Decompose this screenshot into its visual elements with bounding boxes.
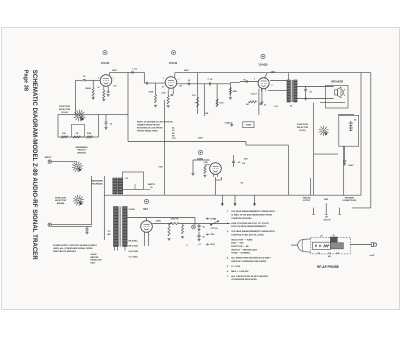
svg-text:ALL CAPACITORS IN MFD UNLESS: ALL CAPACITORS IN MFD UNLESS bbox=[231, 275, 268, 278]
svg-text:OTHERWISE INDICATED.: OTHERWISE INDICATED. bbox=[231, 278, 258, 281]
svg-text:PRV: PRV bbox=[210, 234, 215, 236]
svg-text:10K: 10K bbox=[205, 113, 209, 115]
svg-text:170: 170 bbox=[328, 253, 331, 255]
svg-text:SWITCH: SWITCH bbox=[77, 150, 86, 152]
svg-text:CHASSIS GROUND.: CHASSIS GROUND. bbox=[231, 217, 252, 220]
svg-text:1M: 1M bbox=[241, 183, 244, 185]
svg-text:1/2W: 1/2W bbox=[244, 158, 248, 160]
svg-text:A7: A7 bbox=[320, 234, 322, 237]
svg-text:POWER SUPPLY CIRCUITS SHOWN IN: POWER SUPPLY CIRCUITS SHOWN IN HEAVY bbox=[53, 244, 98, 247]
svg-text:INPUT: INPUT bbox=[45, 157, 52, 159]
svg-text:4.: 4. bbox=[227, 257, 229, 260]
svg-text:50K: 50K bbox=[62, 133, 66, 135]
svg-text:1629: 1629 bbox=[197, 157, 203, 161]
svg-text:240V: 240V bbox=[198, 137, 203, 140]
svg-text:C18: C18 bbox=[242, 163, 245, 165]
svg-text:1.: 1. bbox=[227, 211, 229, 213]
svg-text:1500 7W: 1500 7W bbox=[171, 218, 179, 220]
svg-text:25: 25 bbox=[264, 105, 266, 107]
svg-text:470K: 470K bbox=[233, 90, 238, 93]
svg-text:ALL RESISTORS SHOWN IN 1/2 WAT: ALL RESISTORS SHOWN IN 1/2 WATT bbox=[231, 257, 271, 260]
svg-text:C .05: C .05 bbox=[208, 79, 214, 81]
svg-text:250V: 250V bbox=[210, 244, 215, 246]
svg-text:WATTS: WATTS bbox=[148, 183, 156, 186]
svg-text:7: 7 bbox=[179, 79, 180, 81]
svg-text:A1: A1 bbox=[172, 127, 174, 130]
svg-text:6X4: 6X4 bbox=[143, 207, 148, 211]
svg-text:WAVEBAND: WAVEBAND bbox=[91, 180, 103, 183]
svg-text:INSTALLING: INSTALLING bbox=[91, 259, 103, 262]
svg-text:UNLESS OTHERWISE INDICATED.: UNLESS OTHERWISE INDICATED. bbox=[231, 260, 267, 263]
svg-text:400: 400 bbox=[246, 103, 249, 106]
svg-text:1.4V: 1.4V bbox=[274, 105, 278, 108]
svg-text:TONE — NORMAL: TONE — NORMAL bbox=[231, 252, 251, 255]
svg-text:500K: 500K bbox=[87, 133, 92, 135]
svg-text:(S1-E): (S1-E) bbox=[299, 130, 305, 132]
svg-text:2: 2 bbox=[254, 79, 255, 81]
svg-text:SELECTOR: SELECTOR bbox=[55, 200, 67, 202]
svg-text:(3): (3) bbox=[150, 187, 153, 189]
svg-text:C .05: C .05 bbox=[132, 69, 138, 71]
svg-text:5.: 5. bbox=[227, 266, 229, 268]
svg-text:TRACER: TRACER bbox=[303, 197, 312, 200]
svg-text:ROTATION IS CCW FROM: ROTATION IS CCW FROM bbox=[137, 127, 163, 130]
svg-text:1.2V: 1.2V bbox=[113, 86, 117, 88]
svg-text:MEG = 1,000,000: MEG = 1,000,000 bbox=[231, 271, 249, 273]
svg-text:C16 4.7: C16 4.7 bbox=[251, 93, 257, 96]
svg-text:375V: 375V bbox=[210, 219, 215, 221]
svg-text:.05: .05 bbox=[238, 162, 241, 164]
svg-text:4.7: 4.7 bbox=[198, 243, 200, 246]
svg-text:FUNCTION: FUNCTION bbox=[55, 197, 66, 199]
svg-text:GND: GND bbox=[324, 199, 329, 201]
svg-text:40: 40 bbox=[354, 119, 356, 122]
svg-text:T2: T2 bbox=[290, 106, 293, 108]
svg-text:(REAR): (REAR) bbox=[57, 202, 65, 205]
svg-text:FRONT PANEL VIEW.: FRONT PANEL VIEW. bbox=[137, 130, 158, 133]
svg-text:30: 30 bbox=[333, 235, 335, 237]
svg-text:VIEWED FROM FRONT.: VIEWED FROM FRONT. bbox=[137, 125, 160, 127]
svg-text:FUNCTION — RF: FUNCTION — RF bbox=[231, 246, 249, 248]
svg-text:10AQ5: 10AQ5 bbox=[258, 62, 268, 66]
svg-text:(FRONT): (FRONT) bbox=[77, 152, 86, 154]
svg-text:FUNCTION: FUNCTION bbox=[59, 106, 70, 108]
svg-text:6.3VAC: 6.3VAC bbox=[129, 208, 136, 211]
svg-text:.02: .02 bbox=[83, 76, 87, 78]
svg-text:Page 38: Page 38 bbox=[22, 70, 28, 91]
svg-text:BR 6.3VAC: BR 6.3VAC bbox=[129, 245, 139, 248]
svg-text:SCHEMATIC DIAGRAM-MODEL Z-80 A: SCHEMATIC DIAGRAM-MODEL Z-80 AUDIO-RF SI… bbox=[31, 70, 37, 261]
svg-text:DENOTED BY ARROWS.: DENOTED BY ARROWS. bbox=[53, 250, 77, 253]
svg-text:BK 40VAC: BK 40VAC bbox=[129, 239, 139, 242]
svg-text:(S1-A): (S1-A) bbox=[61, 111, 67, 114]
svg-text:SWITCH — BROADCAST: SWITCH — BROADCAST bbox=[231, 248, 258, 251]
svg-text:12AU6: 12AU6 bbox=[169, 61, 178, 65]
svg-text:DIAL — 550: DIAL — 550 bbox=[231, 242, 244, 245]
svg-text:SELECTOR — TUNE: SELECTOR — TUNE bbox=[231, 239, 253, 241]
svg-text:K = 1000: K = 1000 bbox=[231, 266, 241, 268]
svg-text:117V 60: 117V 60 bbox=[211, 228, 218, 230]
svg-text:TONE: TONE bbox=[246, 125, 252, 127]
svg-text:S2: S2 bbox=[126, 178, 128, 180]
svg-text:12AU6: 12AU6 bbox=[101, 61, 110, 65]
svg-text:VOLTAGE MEASUREMENTS TAKEN WIT: VOLTAGE MEASUREMENTS TAKEN WITH bbox=[231, 230, 275, 233]
svg-text:SELECTOR: SELECTOR bbox=[297, 127, 309, 129]
svg-text:.05: .05 bbox=[110, 124, 112, 126]
svg-text:245V: 245V bbox=[156, 220, 161, 223]
svg-text:1W: 1W bbox=[76, 133, 79, 135]
svg-text:FUNCTION: FUNCTION bbox=[297, 124, 308, 126]
svg-text:C13: C13 bbox=[172, 138, 175, 140]
svg-text:240V: 240V bbox=[112, 69, 117, 72]
svg-text:11 MEG VTVM, AND MEASURED FROM: 11 MEG VTVM, AND MEASURED FROM bbox=[231, 214, 272, 217]
svg-text:1/2W: 1/2W bbox=[158, 167, 162, 169]
svg-text:ALIGN: ALIGN bbox=[91, 253, 98, 256]
svg-text:SW (REAR): SW (REAR) bbox=[91, 182, 103, 185]
svg-text:1 MEG: 1 MEG bbox=[85, 88, 92, 90]
svg-text:WAVEBAND: WAVEBAND bbox=[76, 146, 88, 149]
svg-text:SPEAKER: SPEAKER bbox=[345, 197, 355, 200]
svg-text:4.7K: 4.7K bbox=[220, 102, 225, 105]
svg-text:.02: .02 bbox=[188, 80, 192, 82]
svg-text:SPEAKER: SPEAKER bbox=[331, 80, 343, 83]
svg-text:CONTROLS SET AS FOLLOWS:: CONTROLS SET AS FOLLOWS: bbox=[231, 233, 264, 236]
svg-text:VAC: VAC bbox=[107, 233, 111, 236]
svg-text:FOR VOLTAGE MEASUREMENTS.: FOR VOLTAGE MEASUREMENTS. bbox=[231, 225, 267, 228]
svg-text:GN 6.3VAC: GN 6.3VAC bbox=[129, 250, 139, 253]
svg-text:VOLTAGE MEASUREMENTS TAKEN WIT: VOLTAGE MEASUREMENTS TAKEN WITH bbox=[231, 210, 275, 213]
svg-text:1.5V: 1.5V bbox=[179, 86, 183, 88]
svg-text:3.: 3. bbox=[227, 231, 229, 233]
svg-text:VOL: VOL bbox=[192, 95, 197, 97]
svg-text:NOTE: S1 SHOWN IN CW POSITION: NOTE: S1 SHOWN IN CW POSITION bbox=[137, 122, 173, 124]
svg-text:240V: 240V bbox=[271, 70, 276, 73]
svg-text:117: 117 bbox=[107, 231, 110, 233]
svg-text:#47: #47 bbox=[325, 216, 328, 219]
svg-text:0V: 0V bbox=[97, 87, 100, 89]
svg-text:5: 5 bbox=[272, 85, 273, 87]
svg-text:UNIT.: UNIT. bbox=[91, 262, 96, 264]
svg-text:RF-AF PROBE: RF-AF PROBE bbox=[317, 265, 339, 269]
svg-text:40: 40 bbox=[203, 235, 205, 238]
svg-text:240V: 240V bbox=[184, 69, 189, 72]
svg-text:OUTPUT: OUTPUT bbox=[303, 200, 312, 202]
svg-text:C4: C4 bbox=[172, 129, 175, 132]
svg-text:470K: 470K bbox=[149, 91, 154, 94]
svg-text:LINE VOLTAGE HELD AT 117 VOLTS: LINE VOLTAGE HELD AT 117 VOLTS bbox=[231, 222, 269, 225]
svg-text:6.: 6. bbox=[227, 271, 229, 273]
svg-text:8: 8 bbox=[187, 245, 188, 247]
svg-text:LINES. ALL OTHERS ARE SIGNAL: LINES. ALL OTHERS ARE SIGNAL PATHS bbox=[53, 247, 93, 250]
svg-text:20: 20 bbox=[310, 92, 313, 94]
svg-text:2.2K: 2.2K bbox=[161, 92, 166, 94]
svg-text:SELECTOR: SELECTOR bbox=[59, 109, 71, 111]
svg-text:+160V: +160V bbox=[348, 165, 355, 167]
svg-text:7.: 7. bbox=[227, 276, 229, 278]
svg-text:0V: 0V bbox=[162, 87, 165, 89]
svg-text:2: 2 bbox=[98, 78, 99, 80]
svg-text:7: 7 bbox=[113, 78, 114, 80]
svg-text:450: 450 bbox=[328, 255, 331, 258]
svg-text:CHAS: CHAS bbox=[225, 122, 231, 125]
svg-text:CONNECTIONS: CONNECTIONS bbox=[342, 200, 357, 202]
svg-text:BEFORE: BEFORE bbox=[91, 257, 100, 259]
svg-text:YL 6.3VAC: YL 6.3VAC bbox=[129, 255, 139, 258]
svg-text:2.2M: 2.2M bbox=[203, 162, 208, 164]
svg-text:2: 2 bbox=[163, 77, 164, 79]
svg-text:(PILOT): (PILOT) bbox=[324, 220, 331, 222]
svg-text:110: 110 bbox=[317, 253, 320, 255]
svg-text:40: 40 bbox=[203, 225, 205, 228]
